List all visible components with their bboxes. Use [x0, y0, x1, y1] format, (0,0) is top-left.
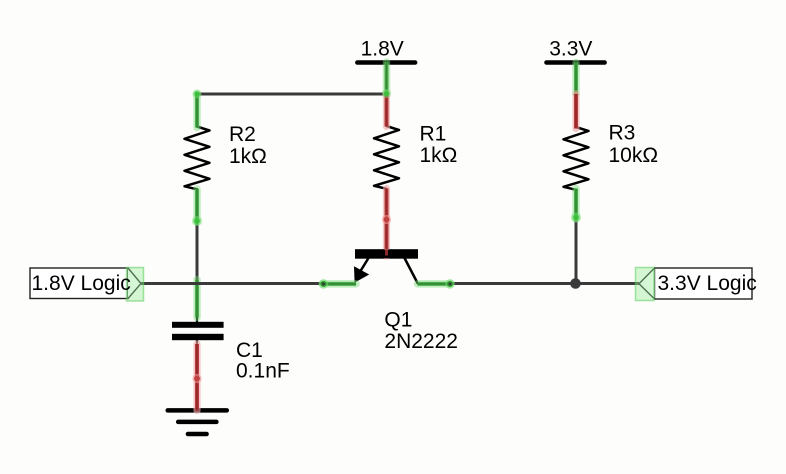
svg-text:3.3V Logic: 3.3V Logic — [658, 272, 757, 295]
svg-text:1.8V Logic: 1.8V Logic — [32, 272, 131, 295]
svg-text:10kΩ: 10kΩ — [609, 144, 659, 167]
svg-text:1.8V: 1.8V — [361, 37, 404, 60]
svg-text:3.3V: 3.3V — [549, 37, 592, 60]
svg-text:1kΩ: 1kΩ — [420, 144, 458, 167]
svg-text:R3: R3 — [609, 122, 636, 145]
svg-text:R1: R1 — [420, 123, 447, 146]
svg-text:R2: R2 — [229, 123, 256, 146]
svg-text:1kΩ: 1kΩ — [229, 145, 267, 168]
svg-text:2N2222: 2N2222 — [384, 330, 458, 353]
svg-text:0.1nF: 0.1nF — [236, 360, 290, 383]
svg-text:Q1: Q1 — [384, 309, 412, 332]
